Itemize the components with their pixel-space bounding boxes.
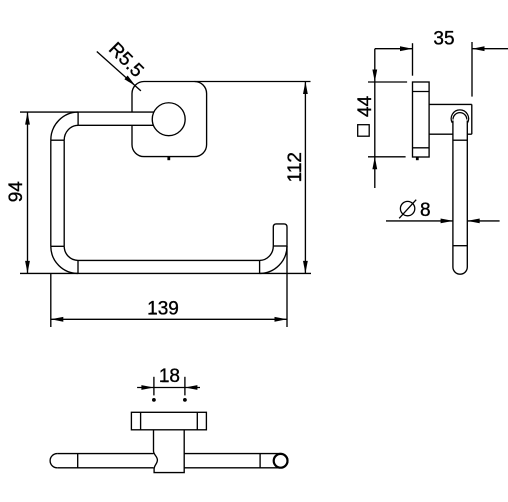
svg-text:139: 139 xyxy=(147,298,179,319)
svg-text:35: 35 xyxy=(433,28,454,49)
svg-text:18: 18 xyxy=(159,366,180,387)
svg-text:44: 44 xyxy=(355,95,376,117)
svg-text:8: 8 xyxy=(420,200,431,221)
svg-text:R5.5: R5.5 xyxy=(104,39,147,82)
svg-text:94: 94 xyxy=(6,181,27,203)
svg-text:112: 112 xyxy=(285,152,306,182)
